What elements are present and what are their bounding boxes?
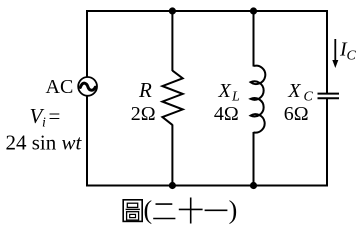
svg-text:X: X bbox=[218, 80, 232, 102]
svg-text:4Ω: 4Ω bbox=[214, 103, 239, 125]
node junction dot bottom XL bbox=[250, 182, 257, 189]
svg-text:AC: AC bbox=[46, 76, 74, 98]
wire R branch lower bbox=[171, 125, 173, 187]
wire right vertical upper bbox=[326, 10, 328, 93]
node junction dot top R bbox=[169, 7, 176, 14]
node junction dot bottom R bbox=[169, 182, 176, 189]
wire XL branch lower bbox=[253, 132, 255, 187]
capacitor XC bottom plate bbox=[318, 97, 340, 99]
wire left vertical upper bbox=[86, 10, 88, 78]
svg-text:X: X bbox=[287, 80, 301, 102]
caption glyph yi (one) bbox=[205, 209, 228, 211]
svg-text:=: = bbox=[49, 104, 61, 128]
svg-text:24 sin wt: 24 sin wt bbox=[6, 130, 83, 154]
inductor XL coil bbox=[251, 66, 266, 133]
capacitor XC top plate bbox=[318, 93, 340, 95]
svg-text:R: R bbox=[138, 78, 152, 102]
caption glyph er (two) bbox=[153, 204, 175, 218]
current arrow IC shaft bbox=[334, 39, 336, 62]
svg-text:(: ( bbox=[144, 196, 153, 225]
svg-text:): ) bbox=[229, 196, 238, 225]
svg-text:i: i bbox=[42, 116, 46, 131]
svg-text:6Ω: 6Ω bbox=[284, 103, 309, 125]
wire bottom horizontal bbox=[86, 185, 328, 187]
svg-text:2Ω: 2Ω bbox=[131, 103, 156, 125]
node junction dot top XL bbox=[250, 7, 257, 14]
current arrow IC head bbox=[332, 60, 338, 68]
wire top horizontal bbox=[86, 10, 328, 12]
AC source circle bbox=[78, 77, 97, 96]
wire R branch upper bbox=[171, 10, 173, 71]
resistor R1 zigzag bbox=[162, 71, 182, 125]
wire XL branch upper bbox=[253, 10, 255, 67]
wire left vertical lower bbox=[86, 96, 88, 187]
caption glyph shi (ten) bbox=[179, 198, 203, 224]
caption glyph tu (figure) outer box bbox=[123, 200, 142, 222]
svg-text:C: C bbox=[347, 49, 357, 64]
AC source sine wave bbox=[80, 83, 95, 90]
wire right vertical lower bbox=[326, 99, 328, 187]
